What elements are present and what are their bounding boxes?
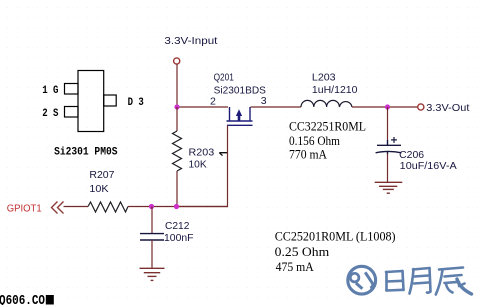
wire C212 top stub [151, 207, 153, 234]
ground C212 [140, 268, 165, 280]
node junction output/C206 [385, 104, 390, 109]
svg-text:1 G: 1 G [42, 85, 58, 97]
logo char chen [436, 268, 472, 295]
transistor Q201 symbol [227, 107, 253, 125]
logo inner circle [350, 273, 359, 282]
wire input to Q201 [177, 106, 228, 108]
pin number 1 (rotated digit on gate wire) [219, 153, 227, 156]
logo ring [348, 266, 376, 294]
svg-text:R207: R207 [89, 169, 114, 181]
svg-text:0.156 Ohm: 0.156 Ohm [289, 134, 340, 148]
svg-text:2: 2 [210, 95, 216, 107]
svg-text:D 3: D 3 [128, 97, 144, 109]
logo char ri [386, 271, 404, 291]
output terminal circle [418, 104, 424, 110]
C206 plus sign [391, 137, 397, 143]
wire C212 bottom stub [151, 240, 153, 268]
package body SOT-23 [65, 71, 117, 132]
input terminal circle [174, 58, 180, 64]
wire input vertical [176, 64, 178, 107]
wire Q201 to L203 [251, 106, 302, 108]
node junction R203 [174, 204, 179, 209]
svg-text:10K: 10K [189, 159, 207, 171]
node junction C212 [149, 204, 154, 209]
logo char yue [410, 268, 431, 294]
svg-text:R203: R203 [189, 146, 215, 158]
logo tail [356, 283, 363, 289]
svg-text:GPIOT1: GPIOT1 [7, 203, 42, 215]
svg-text:Q606.CO: Q606.CO [0, 293, 45, 305]
port chevron [52, 202, 64, 214]
svg-text:10K: 10K [89, 183, 108, 195]
svg-text:CC25201R0ML (L1008): CC25201R0ML (L1008) [275, 229, 396, 243]
resistor R203 [176, 107, 178, 207]
svg-text:Si2301BDS: Si2301BDS [214, 85, 266, 97]
package pin 1 [65, 84, 79, 95]
svg-text:100nF: 100nF [164, 232, 194, 244]
svg-text:0.25 Ohm: 0.25 Ohm [275, 245, 330, 259]
wire C206 top stub [387, 107, 389, 141]
inductor L203 [301, 100, 352, 107]
node junction input/R203 [174, 104, 179, 109]
logo slash [365, 272, 373, 288]
package pin D [104, 95, 117, 106]
wire C206 bottom stub [387, 154, 389, 183]
transistor arrow head [236, 109, 242, 116]
svg-text:475 mA: 475 mA [276, 260, 314, 274]
ground C206 [375, 182, 403, 193]
resistor R207 [88, 202, 128, 212]
wire L203 to output [352, 106, 418, 108]
svg-text:CC32251R0ML: CC32251R0ML [289, 119, 366, 133]
svg-text:3: 3 [261, 95, 267, 107]
wire R207 to gate net [128, 206, 228, 208]
svg-text:10uF/16V-A: 10uF/16V-A [400, 160, 457, 172]
wire gate down and left [177, 125, 228, 206]
svg-text:Si2301 PM0S: Si2301 PM0S [54, 147, 118, 159]
svg-text:1uH/1210: 1uH/1210 [312, 84, 358, 96]
wire port to R207 [64, 206, 89, 208]
svg-text:L203: L203 [312, 71, 336, 83]
package pin 2 [65, 107, 79, 118]
capacitor C212 [140, 234, 164, 240]
capacitor C206 [376, 140, 402, 154]
svg-text:3.3V-Input: 3.3V-Input [164, 35, 217, 47]
svg-text:3.3V-Out: 3.3V-Out [426, 102, 469, 114]
svg-text:2 S: 2 S [42, 108, 59, 120]
svg-text:Q201: Q201 [214, 71, 234, 83]
svg-text:770 mA: 770 mA [289, 147, 327, 161]
svg-text:C212: C212 [165, 220, 190, 232]
